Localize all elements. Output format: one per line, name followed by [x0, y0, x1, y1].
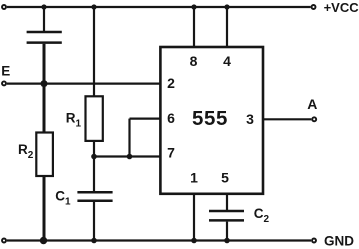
terminal A [312, 117, 316, 121]
terminal top-left [2, 5, 6, 9]
node top rail / cap [41, 4, 46, 9]
svg-text:6: 6 [167, 110, 175, 126]
svg-text:2: 2 [167, 75, 175, 91]
wire R1 to pin7 node [93, 141, 95, 157]
wire pin 3 to A [263, 118, 311, 120]
wire pin 8 [193, 7, 195, 47]
wire E input to pin 2 [7, 82, 161, 84]
svg-text:5: 5 [221, 170, 229, 186]
capacitor C1 [77, 192, 112, 201]
node top rail / pin 4 [224, 4, 229, 9]
wire R2 to bottom rail [43, 176, 46, 241]
node bottom rail / R2 [40, 237, 47, 244]
svg-text:+VCC: +VCC [324, 0, 359, 15]
wire pin 6 horizontal [130, 117, 161, 119]
svg-text:7: 7 [167, 144, 175, 160]
node pin6 / pin7 [127, 154, 133, 160]
wire C1 to bottom rail [93, 202, 95, 241]
svg-text:GND: GND [324, 233, 354, 248]
node bottom rail / C1 [91, 238, 97, 244]
node R1 / pin7 / C1 [91, 154, 97, 160]
wire top rail to capacitor [43, 7, 45, 31]
svg-text:8: 8 [190, 53, 198, 69]
svg-text:A: A [307, 96, 317, 112]
wire E node to R2 [43, 84, 46, 133]
capacitor (unlabeled, left) [27, 32, 62, 43]
node bottom rail / C2 [224, 238, 230, 244]
svg-text:4: 4 [223, 53, 231, 69]
wire C2 to bottom rail [226, 222, 228, 241]
terminal GND [312, 239, 316, 243]
capacitor C2 [209, 211, 244, 220]
wire pin 4 [226, 7, 228, 47]
node E junction [41, 80, 48, 87]
svg-text:E: E [1, 63, 10, 78]
terminal E [2, 81, 6, 85]
wire pin 1 [193, 194, 195, 241]
node bottom rail / pin 1 [191, 238, 197, 244]
wire pin 5 to C2 [226, 194, 228, 210]
wire capacitor to E node [43, 44, 46, 84]
terminal +VCC [312, 5, 316, 9]
svg-text:555: 555 [192, 107, 228, 130]
node top rail / pin 8 [191, 4, 196, 9]
wire pin 7 [94, 155, 160, 157]
op-amp U1 555 box [160, 47, 263, 194]
svg-text:3: 3 [246, 111, 254, 127]
wire bottom rail [7, 239, 311, 241]
resistor R1 [86, 96, 103, 141]
wire top rail to R1 [93, 7, 95, 96]
resistor R2 [36, 133, 53, 177]
wire pin 6 vertical [128, 119, 130, 157]
wire top rail [7, 6, 311, 8]
terminal bottom-left [2, 239, 6, 243]
node top rail / R1 [91, 4, 96, 9]
wire pin7 node to C1 [93, 157, 95, 192]
svg-text:1: 1 [190, 170, 198, 186]
